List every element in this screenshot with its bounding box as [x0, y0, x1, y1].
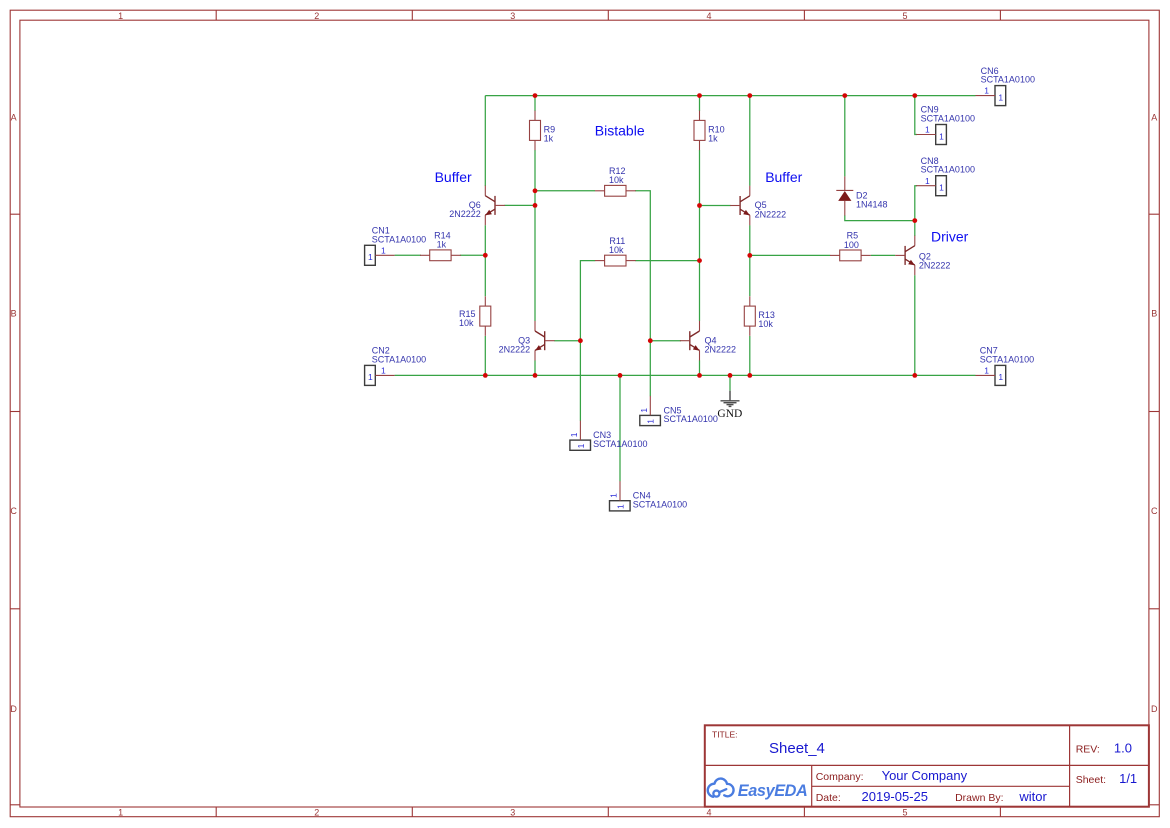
connector CN1 SCTA1A0100	[365, 226, 427, 266]
svg-text:1: 1	[609, 493, 619, 498]
svg-text:Your Company: Your Company	[882, 768, 968, 783]
svg-text:Sheet:: Sheet:	[1076, 774, 1106, 786]
svg-text:1: 1	[984, 86, 989, 96]
svg-text:4: 4	[706, 807, 711, 817]
svg-text:1: 1	[925, 176, 930, 186]
junction dots	[483, 93, 917, 378]
svg-text:2N2222: 2N2222	[919, 261, 951, 271]
svg-text:1: 1	[998, 372, 1003, 382]
ground GND	[717, 391, 742, 420]
connector CN3 SCTA1A0100	[569, 421, 647, 451]
wire R11 left down to Q3 base node	[580, 261, 595, 341]
svg-text:Buffer: Buffer	[765, 169, 802, 185]
wire CN8 node to Q2 collector	[914, 221, 916, 236]
resistor R9 1k	[530, 111, 556, 151]
wire Q2 emitter down	[914, 275, 916, 375]
connector CN4 SCTA1A0100	[609, 481, 687, 511]
wire R5 right to Q2 base	[871, 254, 895, 256]
svg-text:SCTA1A0100: SCTA1A0100	[372, 354, 426, 364]
wire R11 right	[635, 260, 699, 262]
svg-text:1: 1	[939, 183, 944, 193]
svg-text:2N2222: 2N2222	[449, 209, 481, 219]
wire Q6 base	[504, 204, 535, 206]
connector CN5 SCTA1A0100	[639, 396, 718, 426]
svg-text:10k: 10k	[758, 319, 773, 329]
svg-text:SCTA1A0100: SCTA1A0100	[372, 234, 426, 244]
svg-text:2: 2	[314, 11, 319, 21]
svg-text:SCTA1A0100: SCTA1A0100	[921, 114, 975, 124]
svg-text:1: 1	[118, 807, 123, 817]
svg-text:Date:: Date:	[816, 792, 841, 804]
svg-text:5: 5	[902, 11, 907, 21]
title block	[705, 725, 1149, 806]
svg-text:GND: GND	[717, 408, 742, 420]
svg-text:2019-05-25: 2019-05-25	[862, 789, 929, 804]
svg-text:Sheet_4: Sheet_4	[769, 740, 825, 757]
svg-text:1: 1	[925, 125, 930, 135]
wire R5 node to R13	[749, 255, 751, 296]
svg-text:Bistable: Bistable	[595, 123, 645, 139]
svg-text:Drawn By:: Drawn By:	[955, 792, 1003, 804]
svg-text:1.0: 1.0	[1114, 741, 1132, 756]
svg-text:1/1: 1/1	[1119, 771, 1137, 786]
wire Q3 base	[554, 340, 580, 342]
connector CN8 SCTA1A0100	[916, 156, 975, 196]
resistor R14 1k	[420, 231, 461, 261]
svg-text:4: 4	[706, 11, 711, 21]
svg-text:A: A	[1151, 112, 1157, 122]
svg-text:1k: 1k	[708, 134, 718, 144]
svg-text:1: 1	[368, 252, 373, 262]
svg-text:SCTA1A0100: SCTA1A0100	[633, 500, 687, 510]
wire Q5 base node to R11 node	[699, 206, 701, 261]
svg-text:1k: 1k	[544, 134, 554, 144]
svg-text:1: 1	[984, 366, 989, 376]
svg-text:100: 100	[844, 240, 859, 250]
svg-text:SCTA1A0100: SCTA1A0100	[921, 165, 975, 175]
wire CN1 to R14	[395, 254, 421, 256]
svg-text:1: 1	[639, 408, 649, 413]
svg-text:C: C	[10, 506, 17, 516]
resistor R5 100	[830, 231, 871, 261]
wire VCC top rail	[485, 95, 975, 97]
svg-text:1N4148: 1N4148	[856, 200, 888, 210]
svg-text:3: 3	[510, 11, 515, 21]
wire Q6 base node to Q3 collector	[534, 205, 536, 321]
wire Q6 emitter to R14 node	[484, 225, 486, 255]
wire R10 top	[699, 96, 701, 111]
svg-text:Driver: Driver	[931, 228, 969, 244]
svg-text:10k: 10k	[609, 245, 624, 255]
resistor R11 10k	[595, 236, 636, 266]
svg-text:3: 3	[510, 807, 515, 817]
diode D2 1N4148	[836, 176, 887, 215]
svg-text:Buffer: Buffer	[435, 169, 472, 185]
wire Q6 collector up	[484, 96, 486, 186]
wire CN8 branch	[915, 186, 917, 221]
wire R12 right down to Q4 base node	[635, 191, 650, 341]
svg-text:1: 1	[615, 504, 625, 509]
wire R14 node to R15	[484, 255, 486, 296]
svg-text:SCTA1A0100: SCTA1A0100	[981, 75, 1035, 85]
svg-text:SCTA1A0100: SCTA1A0100	[593, 439, 647, 449]
svg-text:B: B	[11, 308, 17, 318]
svg-text:SCTA1A0100: SCTA1A0100	[980, 354, 1034, 364]
svg-text:2N2222: 2N2222	[755, 209, 787, 219]
wire R10 bottom to Q5 base node	[699, 150, 701, 206]
wire R12 left	[535, 190, 595, 192]
connector CN2 SCTA1A0100	[365, 346, 427, 386]
svg-text:1: 1	[381, 245, 386, 255]
wire CN9 branch	[915, 96, 917, 135]
svg-text:REV:: REV:	[1076, 744, 1100, 756]
wire R13 bottom	[749, 336, 751, 375]
svg-text:1: 1	[569, 432, 579, 437]
svg-text:D: D	[1151, 704, 1158, 714]
svg-text:C: C	[1151, 506, 1158, 516]
resistor R12 10k	[595, 166, 636, 196]
svg-text:1: 1	[576, 443, 586, 448]
wire R15 bottom	[484, 336, 486, 375]
transistor Q3 2N2222	[499, 321, 555, 361]
svg-text:1: 1	[118, 11, 123, 21]
transistor Q6 2N2222	[449, 186, 505, 226]
svg-text:1: 1	[646, 419, 656, 424]
svg-text:2N2222: 2N2222	[705, 345, 737, 355]
resistor R13 10k	[744, 296, 775, 336]
wire CN4 branch	[619, 375, 621, 481]
svg-text:1k: 1k	[437, 240, 447, 250]
transistor Q2 2N2222	[895, 236, 950, 276]
wire Q3 emitter down	[534, 360, 536, 375]
wire GND bottom rail	[395, 374, 976, 376]
svg-text:1: 1	[381, 366, 386, 376]
transistor Q5 2N2222	[730, 186, 786, 226]
svg-text:10k: 10k	[609, 175, 624, 185]
svg-text:SCTA1A0100: SCTA1A0100	[664, 414, 718, 424]
wire GND stub	[729, 375, 731, 390]
svg-text:5: 5	[902, 807, 907, 817]
svg-text:2N2222: 2N2222	[499, 345, 531, 355]
svg-text:10k: 10k	[459, 318, 474, 328]
wire Q5 base	[700, 205, 731, 207]
svg-text:EasyEDA: EasyEDA	[738, 782, 808, 800]
transistor Q4 2N2222	[680, 321, 736, 361]
svg-text:1: 1	[998, 92, 1003, 102]
wire R11 node to Q4 collector	[699, 261, 701, 321]
svg-text:witor: witor	[1018, 789, 1047, 804]
wire R9 top	[534, 96, 536, 111]
wire R5 left	[750, 254, 830, 256]
svg-text:Company:: Company:	[816, 771, 864, 783]
wire R14 to Q6 emitter node	[460, 254, 485, 256]
wire D2 top	[844, 96, 846, 177]
resistor R10 1k	[694, 111, 725, 151]
resistor R15 10k	[459, 296, 491, 336]
wire D2 bottom to CN8 node	[845, 215, 915, 220]
svg-text:1: 1	[939, 131, 944, 141]
svg-text:1: 1	[368, 372, 373, 382]
svg-text:TITLE:: TITLE:	[712, 730, 738, 740]
svg-text:D: D	[10, 704, 17, 714]
svg-text:A: A	[11, 112, 17, 122]
wire Q4 base node to CN5	[649, 341, 651, 397]
connector CN6 SCTA1A0100	[976, 66, 1035, 106]
wire Q5 emitter to R5 node	[749, 225, 751, 255]
wire Q5 collector up	[749, 96, 751, 186]
svg-text:B: B	[1151, 308, 1157, 318]
wire Q4 base	[650, 340, 681, 342]
svg-text:2: 2	[314, 807, 319, 817]
connector CN9 SCTA1A0100	[916, 105, 975, 145]
wire R9 bottom to Q6 base node	[534, 150, 536, 205]
wire Q3 base node to CN3	[579, 341, 581, 421]
wire Q4 emitter down	[699, 360, 701, 375]
connector CN7 SCTA1A0100	[976, 346, 1035, 386]
EasyEDA logo	[708, 779, 808, 801]
